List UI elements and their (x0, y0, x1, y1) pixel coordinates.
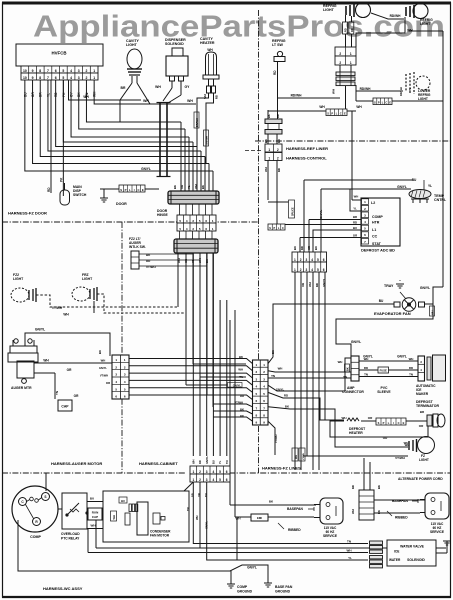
svg-text:7: 7 (47, 76, 49, 80)
svg-text:9: 9 (32, 69, 34, 73)
svg-text:WH: WH (431, 311, 435, 315)
svg-text:5: 5 (62, 76, 64, 80)
svg-text:2: 2 (277, 148, 279, 152)
svg-text:RD: RD (47, 187, 51, 192)
svg-text:9: 9 (32, 76, 34, 80)
svg-text:RD: RD (300, 246, 304, 250)
svg-text:GN/YL: GN/YL (233, 383, 242, 387)
svg-text:BU: BU (98, 350, 102, 354)
svg-text:TN: TN (225, 460, 229, 464)
svg-text:HARNESS-FZ DOOR: HARNESS-FZ DOOR (8, 211, 47, 216)
svg-text:HARNESS-FZ LINES: HARNESS-FZ LINES (262, 466, 301, 471)
svg-text:C: C (398, 421, 400, 425)
svg-text:WH: WH (264, 167, 268, 172)
svg-text:S: S (44, 495, 46, 499)
svg-text:S: S (327, 112, 329, 116)
svg-text:RD: RD (315, 283, 319, 287)
svg-text:WH: WH (332, 89, 336, 94)
svg-text:BK: BK (201, 185, 205, 189)
svg-text:2: 2 (86, 76, 88, 80)
svg-text:P: P (383, 421, 385, 425)
svg-text:HVFCB: HVFCB (51, 51, 66, 56)
svg-text:GN/YL: GN/YL (141, 167, 151, 171)
svg-text:WATER VALVE: WATER VALVE (400, 545, 424, 549)
svg-text:RD/WH: RD/WH (390, 14, 401, 18)
svg-text:10: 10 (23, 69, 27, 73)
svg-text:4: 4 (311, 268, 313, 272)
svg-text:1: 1 (350, 61, 352, 65)
svg-text:BR: BR (353, 215, 357, 219)
svg-text:OVERLOAD: OVERLOAD (61, 532, 80, 536)
svg-text:4: 4 (311, 258, 313, 262)
svg-text:WH: WH (187, 99, 193, 103)
svg-text:1: 1 (192, 470, 194, 474)
svg-text:7: 7 (47, 69, 49, 73)
svg-text:BU: BU (379, 299, 384, 303)
svg-text:E: E (344, 112, 346, 116)
svg-text:LT SW: LT SW (272, 43, 284, 47)
svg-text:C: C (282, 227, 284, 230)
svg-text:WH: WH (404, 441, 409, 445)
svg-text:OR: OR (307, 246, 311, 250)
svg-text:FUSE: FUSE (380, 369, 387, 373)
svg-text:GN/YL: GN/YL (420, 286, 430, 290)
svg-text:3: 3 (78, 76, 80, 80)
svg-text:OR: OR (74, 394, 79, 398)
svg-text:GN/YL: GN/YL (205, 521, 209, 529)
svg-text:TN: TN (204, 493, 208, 497)
svg-text:PTC RELAY: PTC RELAY (61, 537, 80, 541)
svg-text:COMP: COMP (372, 215, 383, 219)
svg-text:TRAY: TRAY (384, 284, 394, 288)
svg-text:1: 1 (294, 258, 296, 262)
svg-text:WH: WH (351, 509, 355, 514)
svg-text:RD: RD (276, 114, 280, 118)
svg-text:HARNESS-REF LINER: HARNESS-REF LINER (286, 146, 328, 151)
svg-text:YL: YL (408, 87, 412, 91)
svg-text:2: 2 (339, 52, 341, 56)
svg-text:TERMINATOR: TERMINATOR (416, 404, 439, 408)
svg-text:WH: WH (101, 359, 106, 363)
svg-text:RIBBED: RIBBED (288, 528, 301, 532)
svg-text:6: 6 (55, 69, 57, 73)
svg-text:GN/YL: GN/YL (351, 340, 361, 344)
svg-text:SERVICE: SERVICE (323, 534, 337, 538)
svg-text:LIGHT: LIGHT (418, 97, 428, 101)
svg-text:WH: WH (409, 357, 414, 361)
svg-text:6: 6 (226, 478, 228, 482)
svg-text:1: 1 (350, 52, 352, 56)
svg-text:RD: RD (273, 70, 277, 75)
svg-text:DEFROST ADC BD: DEFROST ADC BD (361, 249, 395, 253)
svg-text:8: 8 (39, 69, 41, 73)
svg-text:WH: WH (192, 460, 196, 464)
svg-text:GN/YL: GN/YL (397, 355, 407, 359)
svg-text:C: C (340, 112, 342, 116)
svg-text:6: 6 (323, 258, 325, 262)
svg-text:RD: RD (364, 366, 368, 370)
svg-text:L1: L1 (372, 228, 376, 232)
svg-text:S: S (378, 421, 380, 425)
svg-text:WH: WH (238, 368, 243, 372)
svg-text:E: E (389, 101, 391, 105)
svg-text:SOLENOID: SOLENOID (407, 558, 425, 562)
svg-text:S: S (120, 188, 122, 192)
svg-text:BASEPAN: BASEPAN (287, 507, 303, 511)
svg-text:LIGHT: LIGHT (419, 458, 429, 462)
svg-text:RD/WH: RD/WH (291, 94, 302, 98)
svg-text:WH: WH (347, 549, 352, 553)
svg-text:WH: WH (195, 515, 199, 520)
svg-text:YL: YL (353, 207, 357, 211)
svg-text:WH: WH (338, 360, 343, 364)
svg-text:HINGE: HINGE (157, 213, 168, 217)
svg-text:BU: BU (121, 499, 125, 503)
svg-text:5: 5 (219, 470, 221, 474)
svg-text:3: 3 (305, 268, 307, 272)
svg-text:HARNESS-WC ASSY: HARNESS-WC ASSY (43, 586, 83, 591)
svg-text:WH: WH (356, 105, 362, 109)
svg-text:CNTRL: CNTRL (434, 198, 447, 202)
svg-text:RD: RD (344, 28, 348, 32)
svg-text:LIGHT: LIGHT (323, 8, 335, 12)
svg-text:SLEEVE: SLEEVE (377, 390, 391, 394)
svg-text:BK: BK (346, 367, 350, 371)
svg-text:TN: TN (55, 391, 59, 395)
svg-text:P: P (125, 188, 127, 192)
svg-text:WH: WH (112, 515, 116, 519)
svg-text:RD: RD (215, 95, 219, 99)
svg-text:COMP: COMP (237, 585, 248, 589)
svg-text:BR: BR (121, 86, 126, 90)
svg-text:1: 1 (268, 148, 270, 152)
svg-text:4: 4 (212, 478, 214, 482)
svg-text:10: 10 (23, 76, 27, 80)
svg-text:WH: WH (278, 367, 283, 371)
svg-text:FAN MOTOR: FAN MOTOR (150, 534, 170, 538)
svg-text:SERVICE: SERVICE (430, 530, 444, 534)
svg-text:1: 1 (294, 268, 296, 272)
svg-text:COMP: COMP (30, 535, 41, 539)
svg-text:2: 2 (86, 69, 88, 73)
svg-text:RD/WH: RD/WH (360, 87, 371, 91)
svg-text:6: 6 (323, 268, 325, 272)
svg-text:BU: BU (293, 246, 297, 250)
svg-text:RD: RD (350, 28, 354, 32)
svg-text:HARNESS-CONTROL: HARNESS-CONTROL (286, 156, 327, 161)
svg-text:OR: OR (301, 283, 305, 287)
svg-text:SWITCH: SWITCH (73, 193, 87, 197)
svg-text:TN: TN (364, 373, 368, 377)
svg-text:OR: OR (353, 233, 357, 237)
svg-text:OR: OR (197, 493, 201, 497)
svg-text:2: 2 (339, 61, 341, 65)
svg-text:C: C (385, 101, 387, 105)
svg-text:5: 5 (62, 69, 64, 73)
svg-text:CC: CC (372, 235, 378, 239)
svg-text:BU: BU (90, 497, 94, 501)
svg-text:WH: WH (354, 195, 359, 199)
svg-text:YL: YL (428, 184, 432, 188)
svg-text:EMI: EMI (257, 516, 262, 520)
svg-text:VT/WH: VT/WH (52, 306, 63, 310)
svg-text:VT/WH: VT/WH (395, 456, 405, 460)
svg-text:6: 6 (55, 76, 57, 80)
svg-text:WH: WH (364, 357, 369, 361)
svg-text:WH: WH (319, 105, 325, 109)
svg-text:5: 5 (317, 268, 319, 272)
svg-text:TN: TN (409, 373, 413, 377)
svg-text:HEATER: HEATER (349, 431, 363, 435)
svg-text:3: 3 (206, 470, 208, 474)
svg-text:2: 2 (277, 156, 279, 160)
svg-text:ALTERNATE POWER CORD: ALTERNATE POWER CORD (398, 477, 443, 481)
svg-text:4: 4 (70, 76, 72, 80)
svg-text:AUGER MTR: AUGER MTR (11, 386, 32, 390)
svg-text:SOLENOID: SOLENOID (165, 42, 184, 46)
svg-text:LIGHT: LIGHT (420, 22, 431, 26)
svg-text:WH: WH (83, 95, 89, 99)
svg-text:4: 4 (212, 470, 214, 474)
svg-text:5: 5 (317, 258, 319, 262)
svg-text:STAT: STAT (372, 242, 382, 246)
svg-text:ICE: ICE (394, 550, 399, 554)
svg-text:6: 6 (226, 470, 228, 474)
svg-text:OR: OR (67, 368, 72, 372)
svg-text:BASE PAN: BASE PAN (275, 585, 293, 589)
svg-text:SPLICE: SPLICE (292, 207, 295, 216)
svg-text:TN: TN (347, 540, 351, 544)
svg-text:BU: BU (212, 460, 216, 464)
svg-text:L: L (129, 188, 131, 192)
svg-text:WH: WH (342, 416, 347, 420)
svg-text:2: 2 (300, 268, 302, 272)
svg-text:HTR: HTR (372, 221, 380, 225)
svg-text:E: E (403, 421, 405, 425)
svg-text:3: 3 (78, 69, 80, 73)
svg-text:RD: RD (284, 394, 288, 398)
svg-text:RD: RD (277, 168, 281, 172)
svg-text:HEATER: HEATER (200, 41, 215, 45)
svg-text:RD: RD (409, 366, 413, 370)
svg-text:YL: YL (187, 185, 191, 189)
svg-text:OR: OR (106, 381, 110, 385)
svg-text:BK: BK (173, 185, 177, 189)
svg-text:CAP: CAP (61, 405, 69, 409)
svg-text:YL: YL (218, 460, 222, 464)
svg-text:2: 2 (300, 258, 302, 262)
svg-text:RIBBED: RIBBED (395, 516, 408, 520)
svg-text:1: 1 (93, 69, 95, 73)
svg-text:WH: WH (63, 313, 69, 317)
svg-text:WH: WH (155, 85, 161, 89)
svg-text:EVAPORATOR FAN: EVAPORATOR FAN (374, 311, 411, 316)
svg-text:1: 1 (268, 156, 270, 160)
svg-text:DOOR: DOOR (116, 202, 127, 206)
svg-text:2: 2 (199, 470, 201, 474)
svg-text:CAP: CAP (92, 515, 98, 519)
svg-text:1: 1 (93, 76, 95, 80)
svg-text:GN/YL: GN/YL (35, 328, 45, 332)
svg-text:WH: WH (143, 99, 149, 103)
svg-text:TN: TN (343, 375, 347, 379)
svg-text:WH: WH (194, 184, 198, 189)
svg-text:PK: PK (60, 177, 64, 182)
svg-text:GROUND: GROUND (275, 590, 291, 594)
svg-text:RD: RD (198, 460, 202, 464)
svg-text:HARNESS-CABINET: HARNESS-CABINET (139, 461, 178, 466)
svg-text:BK: BK (377, 485, 381, 489)
svg-text:1: 1 (192, 478, 194, 482)
svg-text:GN/WH: GN/WH (205, 136, 209, 145)
svg-text:WATER: WATER (389, 558, 401, 562)
svg-text:INTLK SW.: INTLK SW. (129, 245, 146, 249)
svg-text:HARNESS-AUGER MOTOR: HARNESS-AUGER MOTOR (51, 461, 102, 466)
svg-text:BU: BU (412, 178, 417, 182)
svg-text:BU: BU (353, 226, 357, 230)
svg-text:P: P (378, 101, 380, 105)
svg-text:L2: L2 (371, 201, 375, 205)
svg-text:WH: WH (295, 455, 298, 459)
svg-text:AppliancePartsPros.com: AppliancePartsPros.com (33, 9, 445, 44)
svg-text:LIGHT: LIGHT (13, 277, 24, 281)
svg-text:E: E (142, 188, 144, 192)
svg-text:VT/WH: VT/WH (274, 435, 278, 443)
svg-text:MAKER: MAKER (416, 392, 429, 396)
svg-text:S: S (374, 101, 376, 105)
svg-text:RD: RD (353, 220, 357, 224)
svg-text:WH: WH (43, 359, 49, 363)
svg-text:3: 3 (206, 478, 208, 482)
svg-text:VT/WH: VT/WH (100, 374, 108, 378)
svg-text:LIGHT: LIGHT (126, 43, 138, 47)
svg-text:8: 8 (39, 76, 41, 80)
svg-text:RD/WH: RD/WH (399, 87, 403, 96)
svg-text:3: 3 (305, 258, 307, 262)
svg-text:GROUND: GROUND (237, 590, 253, 594)
svg-text:WH: WH (91, 524, 96, 528)
svg-text:2: 2 (199, 478, 201, 482)
svg-text:BU: BU (314, 246, 318, 250)
svg-text:GN/YL: GN/YL (397, 185, 407, 189)
svg-text:GN/YL: GN/YL (99, 366, 107, 370)
svg-text:BR: BR (191, 493, 195, 497)
svg-text:LIGHT: LIGHT (82, 277, 93, 281)
svg-text:WH: WH (207, 48, 213, 52)
svg-text:RUN: RUN (92, 511, 99, 515)
svg-text:TN: TN (271, 374, 275, 378)
svg-text:YL: YL (348, 556, 352, 560)
svg-text:GN/YL: GN/YL (205, 456, 209, 464)
svg-text:OR: OR (180, 185, 184, 189)
svg-text:4: 4 (70, 69, 72, 73)
svg-text:P: P (331, 112, 333, 116)
svg-text:C: C (137, 188, 139, 192)
svg-text:RD: RD (351, 485, 355, 489)
svg-text:DR/WH: DR/WH (195, 118, 199, 127)
svg-text:5: 5 (219, 478, 221, 482)
svg-text:GN/YL: GN/YL (247, 566, 257, 570)
svg-text:WH: WH (308, 282, 312, 287)
svg-text:GY: GY (185, 85, 191, 89)
svg-text:CONNECTOR: CONNECTOR (342, 390, 364, 394)
